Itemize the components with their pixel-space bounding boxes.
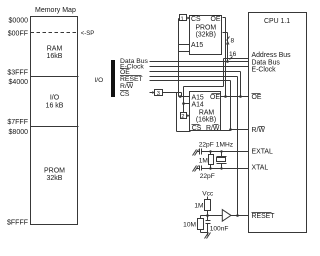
svg-text:A15: A15 [192,94,204,101]
svg-text:<-SP: <-SP [81,31,95,37]
svg-text:CPU 1.1: CPU 1.1 [264,18,290,25]
svg-text:OE: OE [252,94,262,101]
svg-text:OE: OE [211,16,221,23]
svg-text:RESET: RESET [120,76,143,83]
svg-text:3: 3 [157,91,160,97]
svg-text:100nF: 100nF [210,226,229,233]
svg-text:I/O: I/O [50,95,60,102]
svg-text:16kB: 16kB [47,53,63,60]
svg-text:16: 16 [229,51,237,58]
svg-text:22pF: 22pF [199,142,214,149]
svg-text:8: 8 [231,38,235,45]
svg-text:22pF: 22pF [200,173,215,180]
svg-text:1M: 1M [194,203,203,210]
svg-text:RAM: RAM [47,46,63,53]
svg-text:$FFFF: $FFFF [7,220,28,227]
svg-text:E-Clock: E-Clock [252,67,277,74]
svg-text:10M: 10M [183,222,196,229]
svg-text:R/W: R/W [120,83,134,90]
svg-text:$00FF: $00FF [8,31,28,38]
svg-text:R/W: R/W [252,127,266,134]
svg-text:(32kB): (32kB) [196,32,216,39]
svg-text:PROM: PROM [195,25,216,32]
svg-text:XTAL: XTAL [252,165,269,172]
svg-text:Memory Map: Memory Map [35,7,76,14]
svg-text:RESET: RESET [252,213,276,220]
svg-text:A15: A15 [191,42,203,49]
svg-text:CS: CS [191,16,201,23]
svg-text:PROM: PROM [44,168,65,175]
svg-text:1: 1 [181,16,184,22]
svg-text:CS: CS [192,125,202,132]
svg-text:2: 2 [181,114,184,120]
svg-text:$8000: $8000 [9,129,29,136]
svg-text:OE: OE [210,94,220,101]
svg-text:RAM: RAM [199,110,215,117]
svg-text:Vcc: Vcc [202,191,214,198]
svg-text:32kB: 32kB [47,175,63,182]
svg-text:1M: 1M [199,157,208,164]
svg-text:EXTAL: EXTAL [252,149,273,156]
svg-text:$4000: $4000 [9,79,29,86]
svg-text:I/O: I/O [95,77,104,84]
svg-text:CS: CS [120,91,130,98]
svg-text:Address Bus: Address Bus [252,52,292,59]
svg-text:1MHz: 1MHz [216,142,233,149]
svg-text:A14: A14 [192,101,204,108]
svg-text:Data Bus: Data Bus [252,60,281,67]
svg-text:(16kB): (16kB) [196,117,216,124]
svg-text:R/W: R/W [206,125,220,132]
svg-text:$0000: $0000 [9,18,29,25]
svg-text:$7FFF: $7FFF [7,119,28,126]
svg-text:16 kB: 16 kB [46,103,64,110]
svg-text:$3FFF: $3FFF [7,70,28,77]
